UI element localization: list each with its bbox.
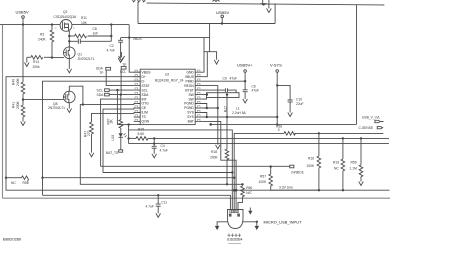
svg-text:47uF: 47uF bbox=[230, 76, 238, 80]
ground C6 bbox=[243, 99, 248, 103]
net BAT_TS bbox=[119, 150, 123, 152]
svg-text:U19: U19 bbox=[111, 135, 115, 141]
svg-text:SCL: SCL bbox=[97, 88, 104, 92]
wire fan L3 OTG long bbox=[80, 104, 242, 185]
svg-text:OTG: OTG bbox=[142, 102, 150, 106]
wire TP2 down bbox=[120, 69, 122, 95]
wire VBUS long bbox=[121, 37, 210, 39]
capacitor C11 4.7uF bbox=[157, 195, 159, 204]
wire rail BAT long bbox=[6, 178, 390, 191]
svg-text:S4: S4 bbox=[238, 238, 242, 242]
wire SCL drop bbox=[116, 90, 118, 125]
ground C2 bbox=[118, 58, 123, 62]
svg-text:R40: R40 bbox=[12, 79, 16, 85]
wire divider vertical bbox=[22, 25, 24, 82]
ground R14 bbox=[26, 57, 28, 62]
wire D+ long (IC pin2 to far left, down) bbox=[6, 77, 140, 178]
node R57 top bbox=[270, 165, 272, 167]
svg-text:D+: D+ bbox=[142, 75, 146, 79]
svg-text:R3: R3 bbox=[40, 33, 44, 37]
ground C4 bbox=[152, 154, 157, 158]
resistor R60 NC vertical near connector bbox=[241, 183, 243, 185]
ground 1.1M bbox=[359, 182, 364, 186]
wire fan L1 bbox=[101, 99, 134, 166]
svg-text:2N7002LT1: 2N7002LT1 bbox=[78, 57, 95, 61]
svg-text:4.7uF: 4.7uF bbox=[146, 205, 154, 209]
svg-text:R59: R59 bbox=[351, 161, 357, 165]
resistor R14 bbox=[27, 56, 31, 58]
svg-text:200K: 200K bbox=[16, 100, 20, 109]
svg-text:CE: CE bbox=[142, 106, 147, 110]
svg-text:C-SENSE: C-SENSE bbox=[359, 126, 374, 130]
ground C11 bbox=[156, 213, 161, 217]
svg-text:100K: 100K bbox=[307, 164, 316, 168]
transistor Q2 bbox=[60, 20, 72, 32]
svg-text:1.1M: 1.1M bbox=[350, 167, 358, 171]
wire SW pins bbox=[202, 95, 207, 100]
wire pin2 up bbox=[202, 52, 208, 77]
svg-text:N/C: N/C bbox=[246, 191, 252, 195]
svg-text:INT: INT bbox=[142, 97, 147, 101]
terminal USB5V mid bbox=[221, 15, 224, 18]
resistor R58 bbox=[6, 177, 22, 179]
svg-text:SDA: SDA bbox=[96, 66, 104, 70]
testpoint SCL TP bbox=[121, 52, 123, 57]
svg-text:QON: QON bbox=[142, 120, 150, 124]
connector top pin boxes bbox=[230, 210, 239, 213]
wire up to line A bbox=[209, 24, 211, 52]
svg-text:24/96CE: 24/96CE bbox=[291, 171, 305, 175]
wire diode to BAT_TS bbox=[120, 137, 122, 150]
node V-SYS branch bbox=[276, 84, 278, 86]
wire vertical to rail B bbox=[128, 125, 130, 144]
wire Q8 source ground bbox=[68, 103, 70, 109]
svg-text:VBUS: VBUS bbox=[142, 70, 152, 74]
svg-text:SW: SW bbox=[188, 93, 194, 97]
svg-text:SCL: SCL bbox=[142, 88, 149, 92]
IC left pin stubs bbox=[134, 72, 140, 121]
svg-text:R18: R18 bbox=[211, 150, 217, 154]
ground R47 bbox=[89, 153, 94, 157]
transistor Q1 bbox=[64, 47, 76, 59]
svg-text:PGND: PGND bbox=[184, 106, 194, 110]
resistor R41 bbox=[21, 105, 25, 117]
wire VBUS drop bbox=[129, 25, 140, 73]
wire BAT pin route bbox=[202, 121, 237, 209]
resistor R47 bbox=[90, 122, 94, 134]
node R58 right bbox=[41, 177, 43, 179]
svg-text:R41: R41 bbox=[12, 102, 16, 108]
node rail A R16 bbox=[318, 132, 320, 134]
ground Q8 bbox=[67, 109, 72, 113]
svg-text:REGN: REGN bbox=[184, 84, 194, 88]
svg-text:2.2uH 5A: 2.2uH 5A bbox=[232, 111, 247, 115]
wire 2K to diode bbox=[120, 128, 122, 133]
svg-text:VBUS: VBUS bbox=[185, 75, 195, 79]
node 4.7uF cap on rail bbox=[157, 194, 159, 196]
wire line A top bbox=[147, 3, 385, 5]
capacitor C8 bbox=[69, 40, 78, 42]
svg-text:3.3V Line: 3.3V Line bbox=[279, 185, 293, 189]
svg-text:PGND: PGND bbox=[184, 102, 194, 106]
resistor R11 bbox=[69, 35, 74, 37]
svg-text:100K: 100K bbox=[259, 180, 268, 184]
resistor R15 5.6K bbox=[136, 137, 148, 141]
svg-text:4.7uF: 4.7uF bbox=[160, 149, 168, 153]
capacitor C2 bbox=[120, 38, 122, 41]
svg-text:240K: 240K bbox=[38, 38, 47, 42]
svg-text:R60: R60 bbox=[246, 186, 252, 190]
terminal V-SYS bbox=[276, 72, 278, 124]
inductor L1 rectangle bbox=[207, 93, 240, 98]
svg-text:R11: R11 bbox=[81, 16, 87, 20]
IC right pin stubs bbox=[195, 72, 201, 121]
svg-text:VBUS: VBUS bbox=[133, 37, 143, 41]
wire USB5V rail top-left bbox=[0, 24, 129, 26]
capacitor C4 bbox=[153, 138, 155, 146]
svg-text:R58: R58 bbox=[23, 181, 29, 185]
svg-text:C4: C4 bbox=[161, 144, 165, 148]
svg-text:NC: NC bbox=[334, 167, 339, 171]
rail C bbox=[129, 143, 389, 145]
connector left shield bbox=[217, 222, 227, 226]
rail A to connector pin3 bbox=[234, 133, 284, 209]
svg-text:V-SYS: V-SYS bbox=[270, 63, 282, 68]
svg-text:BQ24196_RGY_24: BQ24196_RGY_24 bbox=[155, 79, 184, 83]
resistor R16 100K bbox=[318, 133, 320, 156]
svg-text:R15: R15 bbox=[138, 128, 144, 132]
wire gate Q8 bbox=[23, 99, 63, 101]
svg-text:SYS: SYS bbox=[187, 111, 194, 115]
svg-text:B8920280: B8920280 bbox=[3, 237, 22, 242]
node R58 left bbox=[5, 177, 7, 179]
wire line TS (y=124.6) bbox=[117, 124, 140, 126]
svg-text:SW: SW bbox=[188, 97, 194, 101]
svg-text:47uF: 47uF bbox=[252, 89, 260, 93]
svg-text:C11: C11 bbox=[161, 201, 167, 205]
svg-text:CSD25402Q3A: CSD25402Q3A bbox=[54, 15, 78, 19]
svg-text:C10: C10 bbox=[296, 98, 302, 102]
wire GND pin up bbox=[202, 38, 204, 73]
svg-text:GND: GND bbox=[186, 70, 194, 74]
net 24/96CE stub bbox=[290, 165, 294, 168]
resistor cropped at top edge bbox=[133, 0, 146, 2]
resistor R67 2K bbox=[119, 120, 123, 128]
wire drop to C-SENSE area bbox=[356, 5, 358, 125]
resistor R57 100K bbox=[270, 167, 272, 174]
svg-text:L1: L1 bbox=[236, 107, 240, 111]
wire fan ILIM to R47 bbox=[92, 113, 134, 123]
ground IC top bbox=[214, 60, 219, 64]
wire D- long (IC pin3 to left, down) bbox=[43, 81, 141, 195]
IC pin number ticks right bbox=[197, 70, 200, 121]
wire SYS rail bbox=[202, 113, 278, 118]
wire top loop left vertical bbox=[137, 2, 139, 24]
ground cropped arrow top bbox=[262, 0, 264, 4]
svg-text:U2: U2 bbox=[165, 73, 169, 77]
capacitor C6 bbox=[244, 81, 246, 90]
svg-text:SYS: SYS bbox=[187, 115, 194, 119]
svg-text:MICRO_USB_INPUT: MICRO_USB_INPUT bbox=[264, 220, 303, 225]
svg-text:BTST: BTST bbox=[185, 88, 193, 92]
node USB5V left bbox=[22, 23, 24, 25]
wire top loop right vertical bbox=[274, 3, 276, 23]
wire BTST with cap bbox=[202, 89, 226, 91]
capacitor C10 bbox=[288, 100, 293, 102]
rail D1 to connector pin2 bbox=[129, 130, 233, 210]
ground C10 bbox=[288, 113, 293, 117]
svg-text:200K: 200K bbox=[210, 156, 219, 160]
node USB5V tap bbox=[221, 22, 223, 24]
frame border bottom bbox=[3, 197, 391, 199]
node VBUS junction bbox=[128, 36, 130, 38]
svg-text:200k: 200k bbox=[33, 65, 41, 69]
frame border left bbox=[2, 25, 4, 199]
svg-text:C2: C2 bbox=[110, 44, 114, 48]
wire rail r2 bbox=[103, 172, 232, 174]
wire to ground bbox=[22, 117, 24, 122]
wire REGN down bbox=[202, 86, 218, 145]
svg-text:22uF: 22uF bbox=[296, 102, 304, 106]
ground Q1 bbox=[67, 69, 72, 73]
connector mounting pads bbox=[228, 234, 242, 238]
ground REGN bbox=[216, 145, 221, 149]
svg-text:1nF: 1nF bbox=[93, 32, 99, 36]
wire TP1 to pin4 bbox=[106, 70, 134, 86]
resistor R59 1.1M bbox=[360, 138, 362, 164]
svg-text:C9: C9 bbox=[223, 76, 227, 80]
svg-text:C8: C8 bbox=[93, 27, 97, 31]
svg-text:R16: R16 bbox=[308, 157, 314, 161]
wire Q2 gate node vertical bbox=[68, 31, 70, 47]
wire top loop horizontal bbox=[138, 23, 275, 25]
resistor R19 NC bbox=[342, 138, 344, 159]
svg-text:R57: R57 bbox=[260, 174, 266, 178]
rail B with resistor R15 bbox=[129, 137, 136, 139]
svg-text:Q2: Q2 bbox=[63, 10, 68, 14]
svg-text:USB_V_LVL: USB_V_LVL bbox=[362, 116, 380, 120]
svg-text:BAT: BAT bbox=[188, 120, 194, 124]
wire Q8 drain route bbox=[69, 86, 83, 104]
rails B dots right bbox=[342, 137, 344, 139]
wire L1/R18 drop x=227 bbox=[226, 95, 228, 149]
node R3 bottom bbox=[51, 56, 53, 58]
svg-text:STAT: STAT bbox=[142, 84, 150, 88]
svg-text:Q1: Q1 bbox=[78, 53, 83, 57]
wire rail r3 bbox=[43, 177, 235, 179]
ground open arrow top bbox=[268, 0, 270, 9]
svg-text:R19: R19 bbox=[333, 161, 339, 165]
wire PGND tie bbox=[202, 104, 218, 109]
connector right shield bbox=[243, 222, 257, 226]
resistor R56 bbox=[284, 132, 295, 136]
wire R11/C8 right vertical bbox=[110, 25, 112, 42]
resistor cropped at top edge 2 bbox=[213, 0, 220, 2]
wire to C10 bbox=[277, 85, 290, 100]
wire rail r1 3.3V bbox=[101, 165, 290, 167]
wire rail r6 bbox=[43, 195, 231, 209]
svg-text:5.6K: 5.6K bbox=[138, 132, 146, 136]
ground divider bbox=[21, 122, 26, 126]
svg-text:Q8: Q8 bbox=[53, 102, 58, 106]
IC U2 BQ24196 bbox=[140, 69, 195, 124]
svg-text:SDA: SDA bbox=[97, 93, 105, 97]
svg-text:USB5V+: USB5V+ bbox=[237, 63, 253, 68]
wire SDA drop to 2K bbox=[120, 95, 122, 120]
resistor R18 200K bbox=[225, 149, 229, 160]
wire divider mid bbox=[22, 94, 24, 105]
svg-text:BAT_TS: BAT_TS bbox=[106, 151, 119, 155]
resistor R40 bbox=[21, 82, 25, 94]
node Q8 drain bbox=[82, 103, 84, 105]
svg-text:D-: D- bbox=[142, 79, 145, 83]
svg-text:USB5V: USB5V bbox=[216, 10, 229, 15]
diode U19 bbox=[119, 133, 123, 137]
svg-text:NC: NC bbox=[11, 181, 16, 185]
svg-text:270: 270 bbox=[87, 130, 91, 136]
IC left pin names bbox=[142, 70, 152, 123]
svg-text:2N7002LT1: 2N7002LT1 bbox=[48, 106, 65, 110]
svg-text:R14: R14 bbox=[33, 60, 39, 64]
wire Q1 source to ground bbox=[68, 59, 70, 69]
svg-text:ILIM: ILIM bbox=[142, 111, 149, 115]
svg-text:4.7uF: 4.7uF bbox=[107, 49, 115, 53]
resistor R3 bbox=[51, 25, 53, 30]
wire C-SENSE horizontal bbox=[211, 123, 357, 125]
wire gate Q1 bbox=[52, 57, 64, 59]
IC pin number ticks left bbox=[135, 70, 138, 121]
svg-text:USB5V: USB5V bbox=[16, 10, 29, 15]
wire PMID bbox=[202, 80, 246, 82]
connector MICRO_USB_INPUT bbox=[228, 210, 244, 229]
ground small above right bbox=[249, 208, 251, 211]
node C4 top bbox=[153, 137, 155, 139]
svg-text:240K: 240K bbox=[16, 77, 20, 86]
wire fan L2 bbox=[103, 108, 134, 173]
IC right pin names bbox=[184, 70, 194, 123]
svg-text:0: 0 bbox=[278, 128, 280, 132]
svg-text:PMID: PMID bbox=[186, 79, 195, 83]
node divider bbox=[22, 98, 24, 100]
capacitor C7 bbox=[225, 88, 227, 92]
svg-text:10K: 10K bbox=[81, 21, 88, 25]
svg-text:SDA: SDA bbox=[142, 93, 150, 97]
wire gnd jog bbox=[204, 52, 217, 60]
